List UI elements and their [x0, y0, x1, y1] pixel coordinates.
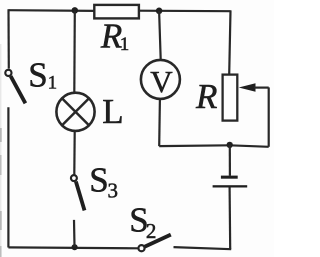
rheostat R body: [223, 75, 238, 121]
switch S1 pivot: [5, 70, 11, 76]
svg-text:S: S: [28, 56, 47, 95]
switch S2 lever: [144, 235, 171, 247]
wire slider return vertical: [268, 87, 270, 146]
node junction dot C battery top: [227, 142, 233, 148]
voltmeter U1: [141, 60, 180, 99]
svg-text:S: S: [89, 160, 108, 199]
label R1: [100, 16, 129, 55]
label R: [195, 77, 217, 116]
label L: [102, 92, 123, 131]
switch S3 pivot: [71, 175, 77, 181]
svg-text:1: 1: [120, 34, 130, 55]
svg-text:L: L: [102, 92, 123, 131]
wire resistor to node B: [139, 10, 159, 12]
battery positive plate long thin: [213, 185, 248, 187]
node junction dot B top-right: [156, 8, 163, 15]
svg-text:V: V: [150, 64, 173, 99]
svg-text:R: R: [195, 77, 217, 116]
svg-text:3: 3: [108, 179, 119, 203]
svg-text:2: 2: [146, 219, 157, 243]
wire right vertical to rheostat: [229, 10, 230, 74]
switch S2 pivot: [138, 245, 144, 251]
wire lamp to S3: [73, 132, 76, 175]
lamp L: [56, 93, 94, 131]
battery negative plate short thick: [221, 176, 238, 179]
label S2: [129, 201, 156, 244]
wire battery lower right vertical: [229, 187, 232, 249]
resistor R1: [94, 5, 139, 19]
wire voltmeter branch top: [159, 11, 161, 60]
label S1: [28, 56, 57, 95]
wire slider return horizontal: [230, 145, 269, 147]
wire voltmeter bottom vertical: [158, 100, 161, 147]
wire top-left horizontal: [9, 9, 95, 12]
wire bottom-right horizontal: [174, 247, 232, 249]
wire node B to top-right corner: [159, 10, 231, 13]
label S3: [89, 160, 118, 202]
switch S1 lever: [11, 76, 26, 103]
wire bottom-left horizontal: [8, 246, 137, 249]
switch S3 lower wire: [73, 220, 76, 247]
node junction dot D bottom: [72, 244, 78, 250]
wire left vertical lower: [7, 107, 9, 247]
wire battery upper: [229, 145, 231, 176]
rheostat slider arrow: [239, 83, 269, 91]
switch S3 lever: [76, 182, 85, 211]
wire left vertical upper: [7, 9, 10, 68]
wire voltmeter bottom horizontal: [159, 144, 230, 147]
svg-text:1: 1: [48, 72, 58, 93]
node junction dot A top-left: [72, 7, 79, 14]
wire node A to lamp: [73, 11, 76, 93]
